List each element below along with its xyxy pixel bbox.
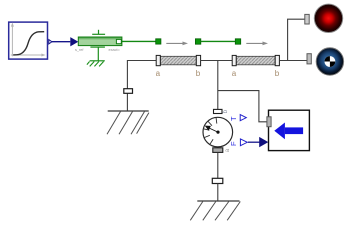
svg-text:a: a <box>232 69 237 78</box>
svg-text:s_ref: s_ref <box>75 48 84 52</box>
prismatic joint 1 <box>156 55 201 78</box>
red body connector <box>305 14 309 24</box>
force source box <box>269 110 310 150</box>
sensor (gauge) <box>203 117 233 147</box>
position actuator (translational) <box>78 37 122 46</box>
wire: left corner to joint1 frame a <box>127 61 156 89</box>
green ground of actuator <box>87 61 105 67</box>
left ground (fixed) <box>107 111 149 134</box>
direction arrow 2 <box>246 42 268 46</box>
direction arrow 1 <box>166 42 188 46</box>
svg-text:T: T <box>229 116 238 121</box>
wire branch to force box frame <box>218 91 267 122</box>
sensor output F <box>229 139 248 146</box>
svg-text:b: b <box>196 69 201 78</box>
wire joint1.b to joint2.a <box>201 60 233 62</box>
green connection actuator to flange square 1 <box>121 40 155 42</box>
left fixed flange connector <box>124 89 133 94</box>
wire connector to bottom ground <box>217 184 219 202</box>
input connector of position actuator <box>70 37 78 46</box>
blue body (sphere) <box>316 48 343 75</box>
red body (sphere) <box>314 4 342 32</box>
flange square 3 <box>235 39 240 44</box>
sensor bottom connector a <box>213 148 223 153</box>
bottom ground (fixed) <box>190 201 240 220</box>
flange square 1 <box>156 39 161 44</box>
wire: below left connector to ground <box>126 93 128 111</box>
bottom fixed flange connector <box>212 178 223 183</box>
prismatic joint 2 <box>232 55 280 78</box>
blue body connector <box>307 54 311 64</box>
wire sensor.a down to ground <box>217 153 219 179</box>
support symbol below actuator <box>90 47 105 61</box>
support symbol above actuator <box>92 30 105 35</box>
svg-text:b: b <box>275 69 280 78</box>
sensor top connector b <box>214 109 223 113</box>
sensor output T <box>229 115 246 121</box>
wire branch up to red body <box>288 19 305 60</box>
signal wire <box>52 41 70 43</box>
green connection square2 to square3 <box>201 40 236 42</box>
signal wire F to force <box>248 141 264 143</box>
output connector of source <box>49 40 52 44</box>
svg-text:exact=: exact= <box>109 48 121 52</box>
flange square 2 <box>195 39 200 44</box>
signal source block U1 <box>9 22 48 59</box>
wire down from bus to sensor <box>217 61 219 110</box>
wire joint2.b to bodies <box>279 60 307 62</box>
force input connector <box>259 137 268 147</box>
svg-text:F: F <box>229 141 238 146</box>
svg-text:a: a <box>156 69 161 78</box>
force frame connector <box>267 117 271 127</box>
